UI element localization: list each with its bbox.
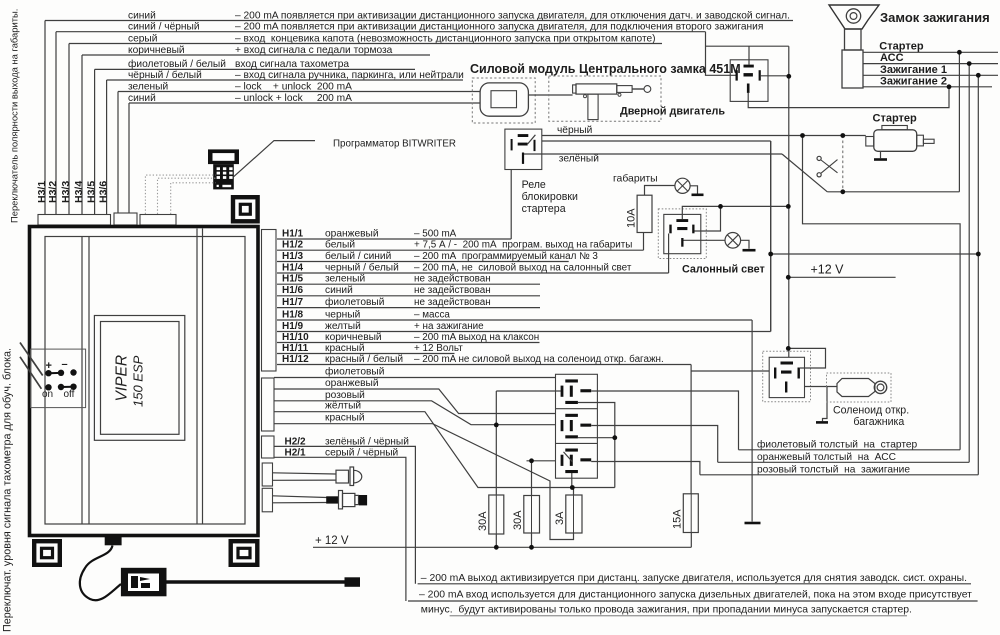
central lock module body <box>480 83 528 116</box>
wire фиолетовый to relay stack <box>274 377 556 379</box>
svg-text:красный: красный <box>325 343 365 354</box>
svg-text:3А: 3А <box>554 511 566 525</box>
svg-text:H2/2: H2/2 <box>285 436 307 447</box>
svg-text:+ 7,5 А / - 200 mA програм.: + 7,5 А / - 200 mA програм. выход на габ… <box>414 240 632 251</box>
mounting tab bottom-left <box>34 541 60 565</box>
svg-text:белый: белый <box>325 239 355 251</box>
svg-text:фиолетовый: фиолетовый <box>325 366 384 378</box>
svg-text:– 200 mA, не силовой выход на: – 200 mA, не силовой выход на салонный с… <box>414 262 632 273</box>
wire H1/4 up into interior-light relay <box>668 234 670 274</box>
svg-text:вход сигнала тахометра: вход сигнала тахометра <box>235 59 349 70</box>
svg-text:фиолетовый: фиолетовый <box>325 296 384 308</box>
ignition key <box>829 5 879 29</box>
wire: vertical drop синий / чёрный (pin H3/2) <box>55 32 57 215</box>
svg-text:габариты: габариты <box>613 173 658 185</box>
svg-text:+ 12 V: + 12 V <box>315 535 349 547</box>
connector block (programmer port) on top of unit <box>140 215 176 226</box>
svg-text:розовый: розовый <box>325 390 365 401</box>
wire красный branch into relay stack <box>527 460 556 462</box>
wire starter motor to ground <box>880 151 882 158</box>
relay stack box <box>556 374 598 478</box>
svg-text:30А: 30А <box>512 510 524 530</box>
svg-text:Зажигание 2: Зажигание 2 <box>880 75 947 87</box>
svg-text:оранжевый толстый на АСС: оранжевый толстый на АСС <box>757 452 896 463</box>
wire: vertical drop чёрный / белый (pin H3/6) <box>106 80 108 215</box>
wire relay top loop <box>706 45 789 47</box>
svg-text:H1/8: H1/8 <box>282 309 304 320</box>
wire H1/9 up to ignition feed <box>770 141 772 332</box>
main unit inner vertical rule pair right <box>196 229 198 525</box>
svg-text:H3/5: H3/5 <box>85 181 97 203</box>
svg-text:30А: 30А <box>477 511 489 531</box>
svg-text:+ 12 Вольт: + 12 Вольт <box>414 343 463 354</box>
svg-text:H3/3: H3/3 <box>60 181 72 203</box>
relay K2 (stack middle) <box>565 414 578 417</box>
wire interior lamp to ground <box>741 240 749 249</box>
svg-text:on: on <box>42 389 53 400</box>
svg-text:жёлтый: жёлтый <box>325 401 361 412</box>
wire trunk relay to solenoid <box>805 386 838 388</box>
switch dots row 1 <box>45 370 51 376</box>
svg-text:белый / синий: белый / синий <box>325 250 391 262</box>
wire: vertical drop синий to lock connector <box>128 103 130 213</box>
VIPER 150 ESP label panel <box>94 316 184 441</box>
relay second-ignition box <box>730 60 768 102</box>
wire чёрный (relay to starter motor) <box>542 135 866 137</box>
wire hood switch to starter line <box>827 191 959 193</box>
svg-text:зеленый: зеленый <box>325 274 365 285</box>
wire to ACC (underline) <box>718 461 970 463</box>
antenna stub on unit bottom <box>105 537 122 545</box>
door motor dashed box <box>549 76 661 121</box>
svg-text:Силовой модуль Центрального за: Силовой модуль Центрального замка 451М <box>470 62 741 76</box>
wire relay K3 output <box>591 462 700 475</box>
wire fuse1 bottom <box>495 534 497 547</box>
wire ignition feed bus (vertical) <box>770 141 772 332</box>
wire fuse2 top <box>531 461 533 496</box>
wire Зажигание 2 <box>863 86 992 88</box>
wire relay K2 output <box>591 426 718 463</box>
status LED <box>336 470 349 483</box>
svg-text:розовый толстый на зажигание: розовый толстый на зажигание <box>757 465 910 476</box>
svg-text:H1/6: H1/6 <box>282 285 304 296</box>
wire relay coil top loop <box>682 206 788 219</box>
svg-text:блокировки: блокировки <box>522 191 578 203</box>
ground at parking lamp <box>692 194 704 197</box>
svg-text:багажника: багажника <box>853 416 904 428</box>
svg-text:Стартер: Стартер <box>873 113 918 125</box>
wire зелёный to hood switch <box>524 153 782 155</box>
RF receiver module <box>121 568 167 597</box>
pointer line to switch row 2 <box>20 357 41 389</box>
svg-text:не задействован: не задействован <box>414 297 491 308</box>
wire accessory cross rail y254 <box>771 253 979 255</box>
wire relay K1 output <box>591 391 738 450</box>
svg-text:зелёный / чёрный: зелёный / чёрный <box>325 436 409 447</box>
connector block (5 relay wires) <box>262 378 275 431</box>
parking lamp <box>675 178 690 193</box>
svg-text:– масса: – масса <box>414 309 450 320</box>
svg-text:– 200 mA выход на клаксон: – 200 mA выход на клаксон <box>414 332 539 343</box>
svg-text:не задействован: не задействован <box>414 274 491 285</box>
connector block (lock wires) on top of unit <box>114 213 137 225</box>
hood pin switch link (dashed) <box>842 136 844 192</box>
svg-text:Программатор BITWRITER: Программатор BITWRITER <box>333 139 456 150</box>
wire синий/чёрный into relay coil <box>706 32 736 76</box>
fuse 3A <box>566 495 582 533</box>
wire АСС <box>863 63 998 65</box>
svg-text:H1/2: H1/2 <box>282 240 304 251</box>
ignition key stem <box>845 29 862 50</box>
svg-text:Реле: Реле <box>522 179 546 191</box>
junction dots <box>957 50 962 55</box>
svg-text:синий: синий <box>325 285 353 296</box>
svg-text:желтый: желтый <box>325 321 361 332</box>
wire to starter (thick note underline) <box>739 449 961 451</box>
starter-kill relay box <box>505 129 542 169</box>
svg-text:оранжевый: оранжевый <box>325 228 379 239</box>
wire relay K3 lower pin <box>571 473 573 488</box>
svg-text:оранжевый: оранжевый <box>325 378 379 389</box>
svg-text:Дверной двигатель: Дверной двигатель <box>620 106 725 118</box>
wire relay NC to ignition feed <box>542 140 771 142</box>
svg-text:серый: серый <box>128 33 157 44</box>
ground symbol for H1/8 <box>745 522 761 525</box>
svg-text:чёрный: чёрный <box>557 125 592 136</box>
svg-text:+12 V: +12 V <box>811 263 845 277</box>
wire: vertical drop синий (pin H3/1) <box>44 21 46 215</box>
relay K1 (stack top) <box>565 379 578 382</box>
svg-text:коричневый: коричневый <box>325 332 382 343</box>
wire module to door motor <box>528 94 572 96</box>
svg-text:Замок зажигания: Замок зажигания <box>880 10 990 25</box>
svg-text:черный / белый: черный / белый <box>325 261 399 273</box>
trunk relay box <box>769 357 804 397</box>
wire relay K2 lower pin <box>578 437 615 439</box>
wire: vertical drop фиолетовый / белый (pin H3/5) <box>94 69 96 214</box>
central lock module dashed box <box>472 78 535 123</box>
wire H1/8 ground run <box>751 320 753 522</box>
svg-text:стартера: стартера <box>522 203 566 215</box>
svg-text:фиолетовый / белый: фиолетовый / белый <box>128 58 226 70</box>
fuse 10A <box>637 195 652 232</box>
wire starter column <box>958 52 960 192</box>
valet button <box>326 496 339 503</box>
wire main feed vertical (to trunk relay) <box>788 46 790 357</box>
relay K3 (stack bottom) <box>565 449 578 452</box>
svg-text:– 200 mA вход используется для: – 200 mA вход используется для дистанцио… <box>419 590 972 601</box>
svg-text:H1/7: H1/7 <box>282 297 304 308</box>
wire оранжевый to relay stack <box>274 389 556 414</box>
fuse 15A <box>683 494 698 533</box>
wire +12V right stub <box>788 276 895 278</box>
svg-text:зеленый: зеленый <box>128 81 168 92</box>
antenna wire end cap <box>345 577 361 587</box>
wire fuse2 bottom <box>531 533 533 547</box>
svg-text:Переключатель полярности выход: Переключатель полярности выхода на габар… <box>9 9 20 223</box>
svg-text:– 200 mA выход активизируется: – 200 mA выход активизируется при дистан… <box>421 573 967 584</box>
svg-text:150 ESP: 150 ESP <box>131 355 146 407</box>
svg-text:H3/4: H3/4 <box>73 181 85 203</box>
main unit box VIPER 150 ESP <box>30 227 259 536</box>
interior light relay dashed box <box>658 209 706 259</box>
wire Зажигание 1 <box>863 74 998 76</box>
svg-text:H1/12: H1/12 <box>282 354 309 365</box>
svg-text:H3/2: H3/2 <box>47 181 59 203</box>
wire: vertical drop серый (pin H3/3) <box>68 44 70 215</box>
svg-text:Салонный свет: Салонный свет <box>682 264 765 276</box>
svg-text:красный: красный <box>325 413 365 424</box>
svg-text:Соленоид откр.: Соленоид откр. <box>833 405 909 417</box>
wire H1/1 to starter-kill relay <box>510 170 512 240</box>
ignition lock body <box>842 50 863 88</box>
wire розовый to relay stack <box>274 401 556 425</box>
antenna cable (curved) <box>80 546 121 601</box>
wire to ground below trunk relay <box>823 387 828 422</box>
connector block H3 (6-pin) on top of unit <box>38 215 111 226</box>
connector block (valet) <box>262 488 272 512</box>
ground at starter motor <box>874 158 887 161</box>
svg-text:синий / чёрный: синий / чёрный <box>128 22 200 33</box>
svg-text:– 200 mA появляется при активи: – 200 mA появляется при активизации дист… <box>235 22 763 33</box>
svg-text:Зажигание 1: Зажигание 1 <box>880 64 947 76</box>
main unit inner frame <box>45 237 245 525</box>
svg-text:черный: черный <box>325 309 360 320</box>
starter-kill relay internals <box>518 134 529 137</box>
trunk solenoid body <box>837 379 875 397</box>
wire ignition-1 column <box>977 75 979 475</box>
fuse 30A #2 <box>524 496 540 534</box>
wire fuse 10A to lamp <box>645 186 676 196</box>
connector block H1 (12-pin) <box>262 230 277 372</box>
connector block (LED) <box>262 463 272 486</box>
wire relay lower pin to ignition-2 <box>748 87 949 108</box>
interior light relay internals <box>676 219 688 222</box>
relay second-ignition internals <box>744 65 754 68</box>
antenna wire (thick) <box>167 580 346 583</box>
starter motor <box>882 126 907 130</box>
svg-text:– вход сигнала ручника, паркин: – вход сигнала ручника, паркинга, или не… <box>235 70 464 81</box>
wire trunk relay top loop <box>788 348 825 368</box>
svg-text:H1/3: H1/3 <box>282 251 304 262</box>
svg-text:– 500 mA: – 500 mA <box>414 228 457 239</box>
svg-text:H1/4: H1/4 <box>282 262 304 273</box>
svg-text:фиолетовый толстый на старте: фиолетовый толстый на стартер <box>757 438 918 450</box>
valet wires <box>273 496 327 498</box>
dotted link programmer to port <box>145 175 215 214</box>
svg-text:не задействован: не задействован <box>414 285 491 296</box>
connector block H2 (2-pin) <box>262 436 275 458</box>
mounting tab bottom-right <box>231 541 258 565</box>
hood pin switch blade <box>782 154 827 192</box>
pointer line to switch row 1 <box>20 343 43 376</box>
ground below trunk relay <box>816 421 828 424</box>
switch panel (polarity / tach level) <box>31 349 86 408</box>
svg-text:H3/6: H3/6 <box>97 181 109 203</box>
trunk solenoid dashed box <box>827 373 892 402</box>
svg-text:зелёный: зелёный <box>559 154 599 165</box>
interior light relay box <box>664 214 701 253</box>
scissors mark <box>817 156 821 160</box>
wire relay K1 lower pin to bus <box>578 403 615 488</box>
programmer BITWRITER device <box>208 149 239 164</box>
svg-text:– 200 mA появляется при активи: – 200 mA появляется при активизации дист… <box>235 10 790 21</box>
wire fuse1 top <box>495 391 497 495</box>
svg-text:АСС: АСС <box>880 52 904 64</box>
fuse 30A #1 <box>489 495 504 534</box>
LED wires <box>273 473 336 474</box>
wire ACC column <box>968 64 970 463</box>
svg-text:H1/10: H1/10 <box>282 332 309 343</box>
svg-text:10А: 10А <box>626 208 638 228</box>
wire: vertical drop коричневый (pin H3/4) <box>81 55 83 215</box>
wire: vertical drop зеленый to lock connector <box>117 92 119 214</box>
wire fuse4 bottom <box>690 533 692 548</box>
svg-text:Стартер: Стартер <box>879 41 924 53</box>
door motor actuator <box>573 85 576 93</box>
svg-text:H1/1: H1/1 <box>282 228 304 239</box>
pointer line to programmer <box>234 141 315 177</box>
svg-text:off: off <box>64 389 75 400</box>
wire lamp to ground <box>690 186 697 194</box>
wire starter branch down <box>803 136 961 450</box>
wire H1/12 to trunk relay <box>691 370 769 372</box>
wire H1/2 up to 10A fuse <box>643 233 645 251</box>
svg-text:– 200 mA не силовой выход на с: – 200 mA не силовой выход на соленоид от… <box>414 354 664 365</box>
trunk relay internals <box>781 362 794 365</box>
main unit inner vertical rule pair left <box>81 237 83 525</box>
svg-text:коричневый: коричневый <box>128 45 185 56</box>
svg-text:синий: синий <box>128 93 156 104</box>
svg-text:чёрный / белый: чёрный / белый <box>128 69 202 81</box>
wire to ignition (underline) <box>700 474 978 476</box>
svg-text:H1/9: H1/9 <box>282 321 304 332</box>
trunk relay dashed box <box>763 351 811 401</box>
wire relay to interior lamp <box>684 239 726 241</box>
svg-text:минус. будут активированы тол: минус. будут активированы только провода… <box>421 604 912 616</box>
switch dots row 2 <box>45 384 51 390</box>
ground at interior lamp <box>743 249 756 252</box>
svg-text:– unlock + lock 200 mA: – unlock + lock 200 mA <box>235 93 352 104</box>
svg-text:15А: 15А <box>672 509 684 529</box>
svg-text:– lock + unlock 200 mA: – lock + unlock 200 mA <box>235 81 352 92</box>
svg-text:VIPER: VIPER <box>114 355 131 402</box>
svg-text:+ вход сигнала с педали тормоз: + вход сигнала с педали тормоза <box>235 45 393 56</box>
mounting tab top-right <box>233 197 258 221</box>
wire жёлтый to relay stack / fuse bus <box>274 412 615 488</box>
svg-text:синий: синий <box>128 10 156 21</box>
wire +12V bottom rail <box>313 546 691 548</box>
svg-text:красный / белый: красный / белый <box>325 353 403 365</box>
svg-text:Переключат. уровня сигнала та: Переключат. уровня сигнала тахометра для… <box>2 348 14 632</box>
wire красный to relay stack <box>274 424 574 540</box>
wire relay output to main feed <box>761 75 789 77</box>
svg-text:+ на зажигание: + на зажигание <box>414 321 484 332</box>
wire through fuses <box>495 495 497 534</box>
wire fuse3 top <box>573 488 575 496</box>
wire Стартер <box>863 51 998 53</box>
svg-text:H1/5: H1/5 <box>282 274 304 285</box>
wire fuse1 to relay stack <box>496 390 560 392</box>
svg-text:–: – <box>62 359 68 371</box>
interior lamp <box>725 233 741 249</box>
svg-text:H1/11: H1/11 <box>282 343 309 354</box>
svg-text:– 200 mA программируемый кана: – 200 mA программируемый канал № 3 <box>414 251 598 262</box>
svg-text:– вход концевика капота (нево: – вход концевика капота (невозможность д… <box>235 33 656 44</box>
wire H1/12 down to 15A fuse <box>690 365 692 494</box>
